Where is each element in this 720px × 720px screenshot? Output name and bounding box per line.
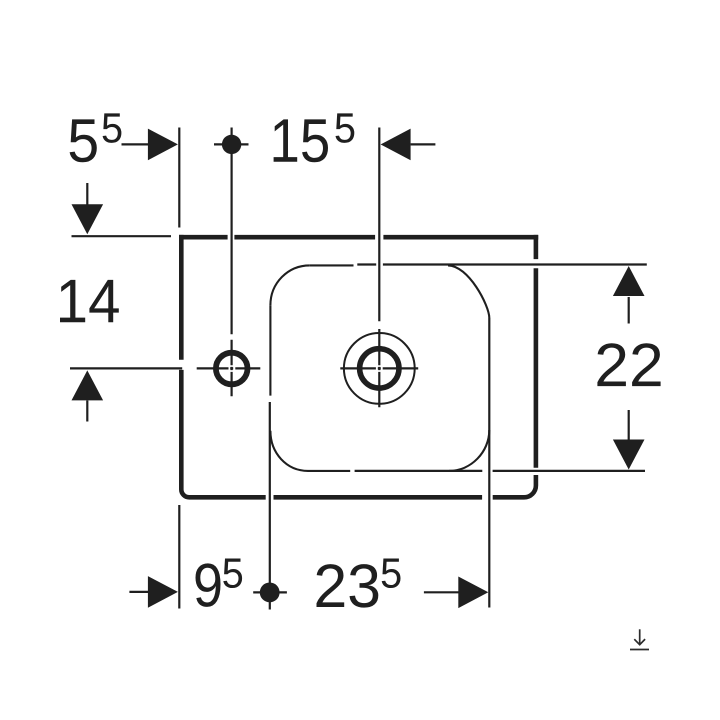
arrow 5-5 right	[148, 129, 178, 161]
dim stem 9-5	[129, 591, 148, 593]
dot2 cross	[253, 591, 287, 593]
reference dot 23-5	[260, 583, 280, 603]
basin-left extension down to dot	[269, 402, 271, 610]
dot1 cross	[214, 143, 249, 145]
arrow 15-5 left	[381, 129, 411, 161]
arrow 14 up	[72, 370, 104, 400]
label 14	[60, 280, 119, 322]
label 9 (main)	[196, 563, 221, 607]
arrow 22 up	[613, 266, 645, 296]
dim stem 23-5	[424, 591, 460, 593]
label 5-sup of 15.5	[336, 113, 355, 142]
basin top edge	[310, 264, 354, 266]
dim stem 14 bottom	[86, 401, 88, 422]
holes horizontal centerline y=368.4	[70, 367, 260, 369]
basin bottom-right corner	[449, 430, 489, 471]
label 23 (main)	[317, 564, 379, 608]
basin-right extension x=489.3	[488, 318, 490, 608]
basin top-left corner	[270, 265, 309, 305]
label 22	[597, 343, 660, 386]
drain outer circle	[344, 333, 415, 404]
label 5-sup of 23.5	[382, 559, 401, 589]
label 5-sup of 9.5	[223, 559, 242, 589]
ext line top (14 dim, y=236)	[72, 235, 172, 237]
inner basin (rounded square, thin outline)	[270, 265, 489, 471]
arrow 22 down	[613, 440, 645, 470]
download icon	[630, 629, 649, 649]
arrow 23-5 right	[458, 577, 488, 609]
basin bottom-left corner	[270, 431, 308, 471]
arrows (filled)	[72, 129, 645, 608]
basin top-right corner	[448, 265, 489, 318]
drain vertical centerline	[378, 128, 380, 408]
outer basin rectangle (thick outline)	[179, 235, 538, 497]
dim stem 5-5	[122, 143, 149, 145]
label 5 (main)	[70, 119, 97, 162]
drain inner circle	[360, 349, 399, 388]
arrow 14 down	[72, 204, 104, 234]
ext line vertical left (5-5 dim, x=179) top	[178, 128, 180, 228]
dimension labels	[60, 113, 661, 607]
ext line vertical left (9-5 dim, x=179) bottom	[178, 505, 180, 609]
arrow 9-5 right	[148, 576, 178, 608]
tap vertical centerline	[231, 128, 233, 397]
22 bottom extension line y=470.9	[355, 470, 645, 472]
dim stem 22 bottom	[628, 410, 630, 441]
thin extension / center lines	[70, 128, 647, 610]
tap hole circle	[216, 353, 248, 385]
dim stem 22 top	[628, 297, 630, 324]
basin left edge	[269, 305, 271, 395]
basin bottom edge	[308, 470, 350, 472]
22 top extension line y=264.5	[357, 263, 647, 265]
dim stem 15-5	[411, 143, 436, 145]
dim stem 14 top	[86, 183, 88, 205]
label 5-sup of 5.5	[103, 113, 122, 142]
reference dot 15-5	[222, 135, 241, 154]
label 15 (main)	[274, 119, 328, 162]
